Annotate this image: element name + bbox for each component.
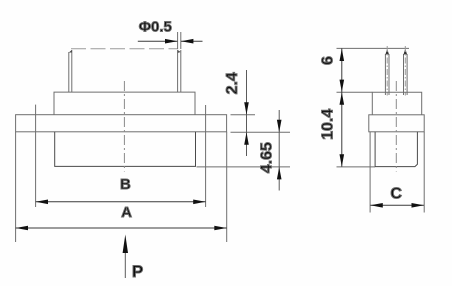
dimension C: left extension line bbox=[369, 132, 371, 213]
dimension 4.65: dimension line with outside arrows bbox=[277, 110, 282, 191]
dimension C: dimension line with arrows bbox=[370, 203, 424, 208]
dimension 2.4: extension line (flange top, right side) bbox=[231, 114, 256, 116]
front view: right pin bbox=[178, 50, 181, 92]
dimension A: dimension line with arrows bbox=[16, 226, 227, 231]
dimension 4.65: extension line (body bottom, right side) bbox=[197, 166, 291, 168]
dimension A: left extension line bbox=[15, 132, 17, 242]
force arrow P bbox=[123, 235, 128, 279]
dimension C: right extension line bbox=[423, 132, 425, 213]
side view: body bottom extension line to dim line bbox=[337, 166, 376, 168]
dimension A: right extension line bbox=[226, 132, 228, 242]
side view: vertical centerline bbox=[395, 81, 397, 172]
dimension B: dimension line with arrows bbox=[36, 200, 206, 205]
front view: top phantom line between pin tips bbox=[71, 48, 178, 50]
side view: flange band bbox=[369, 115, 424, 132]
svg-text:P: P bbox=[132, 262, 143, 281]
svg-text:A: A bbox=[121, 204, 132, 221]
front view: flange plate bbox=[16, 115, 227, 132]
dimension B: left extension line bbox=[35, 105, 37, 207]
side view: pin top extension line bbox=[337, 47, 410, 49]
front view: vertical centerline bbox=[123, 81, 125, 172]
svg-text:6: 6 bbox=[319, 56, 336, 65]
dimension Φ0.5: dimension line with converging arrows bbox=[138, 39, 203, 44]
front view: upper block bbox=[54, 92, 195, 115]
side view: left pin with pointed tip bbox=[385, 46, 389, 96]
dimension 2.4: extension line (flange bottom, right side) bbox=[231, 131, 291, 133]
svg-text:Φ0.5: Φ0.5 bbox=[139, 18, 172, 35]
front view: left pin bbox=[69, 50, 72, 92]
side view: upper block bbox=[372, 92, 421, 115]
svg-text:4.65: 4.65 bbox=[259, 142, 276, 173]
dimension 2.4: dimension line with outside arrows bbox=[244, 70, 249, 156]
svg-text:B: B bbox=[120, 176, 131, 193]
svg-text:C: C bbox=[390, 185, 402, 202]
dimensions 6 and 10.4: shared vertical dimension line with arrows bbox=[340, 48, 345, 166]
svg-text:2.4: 2.4 bbox=[224, 72, 241, 94]
dimension B: right extension line bbox=[205, 105, 207, 207]
front view: lower body bbox=[55, 132, 196, 167]
side view: block top extension line to dim line bbox=[337, 91, 373, 93]
svg-text:10.4: 10.4 bbox=[319, 109, 336, 140]
side view: right pin with pointed tip bbox=[404, 46, 408, 96]
side view: lower body bbox=[375, 132, 417, 167]
dimension Φ0.5: extension lines above right pin bbox=[177, 32, 179, 49]
